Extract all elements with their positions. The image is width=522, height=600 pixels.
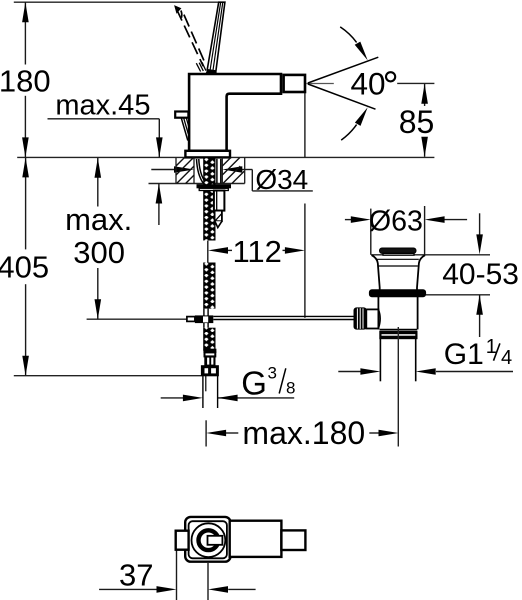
svg-text:G1: G1 <box>444 338 484 371</box>
svg-text:Ø34: Ø34 <box>255 164 308 195</box>
svg-text:37: 37 <box>119 557 153 592</box>
svg-text:Ø63: Ø63 <box>369 206 423 238</box>
svg-text:max.45: max.45 <box>55 89 150 121</box>
svg-text:405: 405 <box>0 249 49 284</box>
svg-text:40-53: 40-53 <box>442 258 519 291</box>
svg-text:180: 180 <box>0 64 51 99</box>
svg-text:max.180: max.180 <box>242 415 365 451</box>
svg-text:8: 8 <box>286 379 295 398</box>
svg-text:112: 112 <box>232 234 281 269</box>
svg-text:4: 4 <box>501 347 512 369</box>
svg-text:max.: max. <box>65 202 132 237</box>
svg-text:G: G <box>241 364 267 401</box>
svg-text:300: 300 <box>73 235 125 270</box>
svg-text:85: 85 <box>399 104 435 140</box>
svg-text:40: 40 <box>350 66 385 102</box>
svg-text:3: 3 <box>268 363 277 382</box>
